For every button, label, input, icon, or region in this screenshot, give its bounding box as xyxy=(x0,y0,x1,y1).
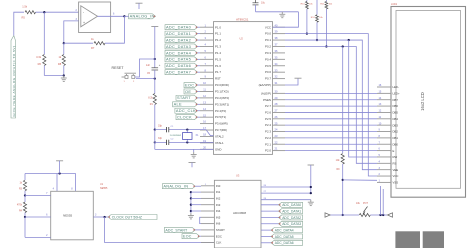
svg-text:P3.4(T0): P3.4(T0) xyxy=(215,109,226,113)
svg-text:LCD1: LCD1 xyxy=(391,3,398,6)
svg-text:XTAL1: XTAL1 xyxy=(215,141,224,145)
svg-text:DB2: DB2 xyxy=(393,130,399,134)
svg-text:8.2k: 8.2k xyxy=(148,97,153,100)
svg-text:P3.2(INT0): P3.2(INT0) xyxy=(215,96,229,100)
svg-text:P1.5: P1.5 xyxy=(215,57,221,61)
svg-text:P1.2: P1.2 xyxy=(215,38,221,42)
svg-text:VCC: VCC xyxy=(393,174,399,178)
svg-text:RW: RW xyxy=(393,155,398,159)
svg-text:P2.7: P2.7 xyxy=(265,104,271,108)
svg-text:START: START xyxy=(216,228,225,232)
svg-text:ADC_DATA2: ADC_DATA2 xyxy=(282,216,301,220)
svg-text:IN1: IN1 xyxy=(216,190,221,194)
svg-text:START: START xyxy=(177,95,191,100)
svg-text:ADC_DATA1: ADC_DATA1 xyxy=(282,209,301,213)
svg-text:P0.6: P0.6 xyxy=(265,70,271,74)
svg-text:ADC_DATA6: ADC_DATA6 xyxy=(275,241,294,245)
svg-text:DB7: DB7 xyxy=(393,98,399,102)
svg-text:RST: RST xyxy=(215,77,221,81)
svg-text:U3: U3 xyxy=(236,173,240,177)
svg-text:DB4: DB4 xyxy=(393,117,399,121)
svg-text:POT: POT xyxy=(363,202,368,205)
svg-text:R5: R5 xyxy=(22,16,26,20)
svg-text:10u: 10u xyxy=(261,1,266,4)
svg-text:P2.5: P2.5 xyxy=(265,117,271,121)
svg-text:P3.7(RD): P3.7(RD) xyxy=(215,128,227,132)
svg-text:+: + xyxy=(83,21,85,25)
svg-text:ANALOG_IN: ANALOG_IN xyxy=(163,184,188,189)
svg-text:ADC_DATA2: ADC_DATA2 xyxy=(166,37,191,42)
svg-text:1uF: 1uF xyxy=(146,64,151,67)
svg-text:ADC_DATA3: ADC_DATA3 xyxy=(166,44,191,49)
svg-text:ADC_DATA5: ADC_DATA5 xyxy=(275,235,294,239)
svg-text:P0.4: P0.4 xyxy=(265,57,271,61)
svg-text:P2.0: P2.0 xyxy=(265,149,271,153)
svg-text:P2.1: P2.1 xyxy=(265,142,271,146)
svg-text:P0.1: P0.1 xyxy=(265,38,271,42)
svg-text:P3.6(WR): P3.6(WR) xyxy=(215,122,228,126)
svg-text:P0.0: P0.0 xyxy=(265,32,271,36)
svg-text:ADC_DATA7: ADC_DATA7 xyxy=(166,70,191,75)
svg-text:3.3k: 3.3k xyxy=(36,55,42,59)
svg-text:ADC_DATA0: ADC_DATA0 xyxy=(282,203,301,207)
svg-text:P2.4: P2.4 xyxy=(265,123,271,127)
svg-text:IN6: IN6 xyxy=(216,222,221,226)
svg-text:AT89C51: AT89C51 xyxy=(236,17,249,21)
svg-text:P0.2: P0.2 xyxy=(265,45,271,49)
svg-text:P2.6: P2.6 xyxy=(265,110,271,114)
svg-text:ADC_DATA5: ADC_DATA5 xyxy=(166,57,191,62)
svg-text:ADC_DATA4: ADC_DATA4 xyxy=(275,228,294,232)
svg-text:P0.7: P0.7 xyxy=(265,77,271,81)
svg-text:DB5: DB5 xyxy=(393,111,399,115)
svg-text:P1.3: P1.3 xyxy=(215,45,221,49)
svg-text:ALE: ALE xyxy=(174,102,182,107)
svg-text:16x2 LCD: 16x2 LCD xyxy=(420,92,425,111)
svg-text:DB0: DB0 xyxy=(393,142,399,146)
svg-text:33p: 33p xyxy=(158,124,163,127)
svg-text:11.0592MHZ: 11.0592MHZ xyxy=(170,135,182,137)
svg-text:GIVE HERE ANALOG INPUT(0 TO 5V: GIVE HERE ANALOG INPUT(0 TO 5V) xyxy=(12,45,16,116)
svg-text:VSS: VSS xyxy=(393,181,399,185)
svg-text:P2.2: P2.2 xyxy=(265,136,271,140)
svg-text:470k: 470k xyxy=(17,203,23,206)
svg-text:P0.5: P0.5 xyxy=(265,64,271,68)
svg-text:IN0: IN0 xyxy=(216,184,221,188)
svg-text:PSEN: PSEN xyxy=(263,98,271,102)
svg-text:IN5: IN5 xyxy=(216,215,221,219)
svg-text:R7: R7 xyxy=(91,46,95,50)
svg-text:DB3: DB3 xyxy=(393,123,399,127)
svg-text:NE555: NE555 xyxy=(100,187,108,190)
svg-text:EOC: EOC xyxy=(183,235,192,239)
svg-text:LED-: LED- xyxy=(393,85,399,89)
svg-text:P3.5(T1): P3.5(T1) xyxy=(215,115,226,119)
svg-text:1.5k: 1.5k xyxy=(22,5,28,9)
svg-text:ADC_CLK: ADC_CLK xyxy=(176,108,196,113)
svg-text:VEE: VEE xyxy=(393,168,399,172)
svg-text:P1.0: P1.0 xyxy=(215,25,221,29)
svg-text:P1.6: P1.6 xyxy=(215,64,221,68)
svg-text:OE: OE xyxy=(185,89,191,94)
svg-text:XTAL2: XTAL2 xyxy=(215,134,224,138)
svg-text:ADC_DATA3: ADC_DATA3 xyxy=(282,222,301,226)
svg-text:DB6: DB6 xyxy=(393,104,399,108)
svg-text:EOC: EOC xyxy=(185,82,194,87)
svg-text:IN2: IN2 xyxy=(216,196,221,200)
svg-text:P1.1: P1.1 xyxy=(215,32,221,36)
svg-text:ADC0808: ADC0808 xyxy=(233,211,246,215)
svg-text:CLOCK: CLOCK xyxy=(177,115,192,120)
svg-text:P3.3(INT1): P3.3(INT1) xyxy=(215,102,229,106)
svg-text:P1.7: P1.7 xyxy=(215,70,221,74)
svg-text:P1.4: P1.4 xyxy=(215,51,221,55)
svg-text:ANALOG_IN: ANALOG_IN xyxy=(130,14,155,19)
svg-text:(ALE/P): (ALE/P) xyxy=(261,91,271,95)
svg-text:P3.0(RXD): P3.0(RXD) xyxy=(215,83,229,87)
svg-text:ADC_DATA0: ADC_DATA0 xyxy=(166,25,192,30)
svg-text:EOC: EOC xyxy=(216,234,222,238)
svg-text:NE555: NE555 xyxy=(63,214,73,218)
svg-text:VCC: VCC xyxy=(265,25,271,29)
svg-text:ADC_DATA1: ADC_DATA1 xyxy=(166,31,191,36)
svg-text:DB1: DB1 xyxy=(393,136,399,140)
svg-text:ADC_START: ADC_START xyxy=(165,228,188,232)
svg-text:GND: GND xyxy=(215,147,221,151)
svg-text:IN4: IN4 xyxy=(216,209,221,213)
svg-text:CLOCK OUT 50HZ: CLOCK OUT 50HZ xyxy=(112,215,142,219)
svg-text:P3.1(TXD): P3.1(TXD) xyxy=(215,90,229,94)
svg-text:U2: U2 xyxy=(240,37,244,41)
svg-text:IN3: IN3 xyxy=(216,203,221,207)
svg-text:RS: RS xyxy=(393,161,397,165)
svg-text:P0.3: P0.3 xyxy=(265,51,271,55)
svg-text:(EA/VPP): (EA/VPP) xyxy=(259,83,271,87)
svg-text:RESET: RESET xyxy=(112,66,125,70)
svg-text:ADC_DATA4: ADC_DATA4 xyxy=(166,50,192,55)
svg-text:R8: R8 xyxy=(58,62,62,66)
svg-text:P2.3: P2.3 xyxy=(265,130,271,134)
svg-text:33p: 33p xyxy=(158,137,163,140)
svg-text:R6: R6 xyxy=(38,62,42,66)
svg-text:LED+: LED+ xyxy=(393,92,400,96)
svg-text:CLK: CLK xyxy=(216,241,222,245)
svg-text:ADC_DATA6: ADC_DATA6 xyxy=(166,63,191,68)
svg-text:E: E xyxy=(393,149,395,153)
